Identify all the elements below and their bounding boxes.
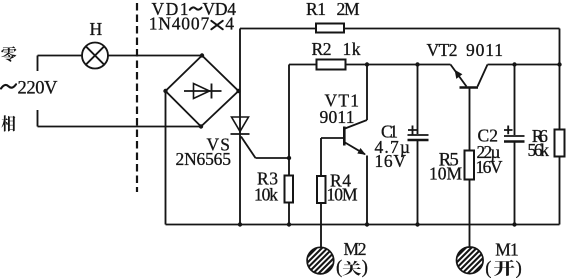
svg-text:R1: R1 [306,0,326,19]
svg-text:(: ( [336,258,342,278]
svg-text:H: H [90,19,103,39]
svg-text:M2: M2 [344,239,367,259]
svg-text:10M: 10M [429,163,462,183]
svg-text:220V: 220V [18,79,59,99]
svg-text:16V: 16V [476,157,503,177]
svg-text:2M: 2M [337,0,360,19]
svg-text:1k: 1k [343,39,361,59]
svg-text:56k: 56k [528,140,550,160]
svg-text:10k: 10k [254,184,278,204]
svg-text:9011: 9011 [466,40,503,60]
svg-text:16V: 16V [375,151,407,171]
svg-text:M1: M1 [495,239,518,259]
svg-text:R2: R2 [312,39,332,59]
svg-text:10M: 10M [327,184,358,204]
svg-text:2N6565: 2N6565 [176,149,232,169]
svg-text:9011: 9011 [320,107,355,127]
svg-text:VT2: VT2 [427,40,458,60]
svg-text:(: ( [485,259,491,278]
svg-text:1N4007: 1N4007 [149,13,210,33]
svg-text:): ) [362,258,368,278]
svg-text:4: 4 [225,13,234,33]
svg-text:): ) [516,259,522,278]
